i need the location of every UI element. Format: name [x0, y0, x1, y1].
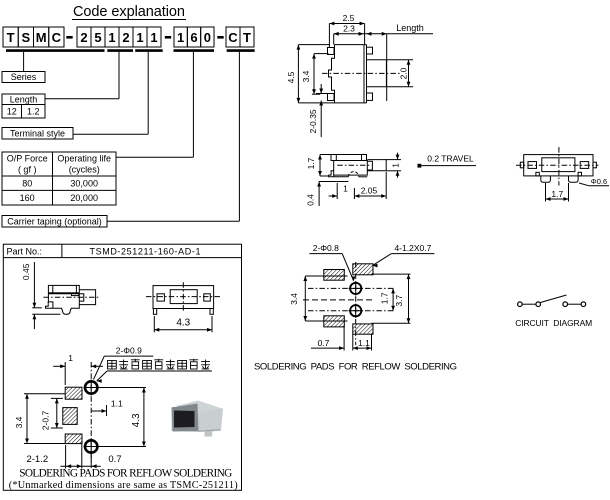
- dashes between code groups: [66, 36, 72, 39]
- tsmd front view: right terminal: [204, 294, 211, 301]
- svg-text:Part No.:: Part No.:: [7, 246, 43, 256]
- connector: carrier taping: [238, 52, 240, 221]
- tsmd front view: button: [170, 290, 197, 304]
- reflow pads: left-bottom pad: [324, 316, 345, 327]
- svg-text:3.4: 3.4: [14, 416, 24, 428]
- label box: Terminal style: [2, 128, 73, 140]
- circuit diagram: lever: [540, 295, 567, 303]
- reflow pads: top-center pad: [353, 264, 373, 275]
- hole crosshairs: [349, 287, 364, 289]
- top view: plunger: [367, 60, 387, 87]
- svg-text:4-1.2X0.7: 4-1.2X0.7: [394, 243, 431, 253]
- svg-text:CIRCUIT DIAGRAM: CIRCUIT DIAGRAM: [515, 318, 592, 328]
- front view: centerlines: [516, 164, 599, 166]
- svg-text:1.7: 1.7: [379, 292, 389, 304]
- svg-text:SOLDERING PADS FOR REFLOW: SOLDERING PADS FOR REFLOW SOLDERING: [254, 362, 457, 373]
- tsmd pads: hole extension lines: [98, 387, 146, 389]
- front view: left terminal: [528, 162, 537, 169]
- group brackets under code: [6, 49, 105, 52]
- top view: tab top-right: [367, 47, 373, 54]
- front view: right terminal: [580, 162, 589, 169]
- tsmd hole crosshairs: [84, 387, 100, 389]
- code character boxes TSMC-251211-160-CT: [3, 27, 18, 47]
- top view: body outline: [329, 45, 367, 103]
- reflow pads: left-top pad: [324, 270, 345, 281]
- svg-text:Terminal style: Terminal style: [10, 128, 65, 138]
- svg-text:0.7: 0.7: [108, 454, 121, 465]
- side view: left step and foot: [329, 171, 349, 177]
- top view: tab bottom-right: [367, 93, 373, 100]
- svg-text:(cycles): (cycles): [69, 165, 100, 175]
- svg-text:1: 1: [136, 30, 143, 45]
- svg-text:1: 1: [391, 163, 401, 168]
- tsmd side view: body: [46, 293, 80, 314]
- front view: terminal stubs: [520, 162, 523, 168]
- top view: terminal top-left: [328, 48, 335, 55]
- tsmd pads: chinese note: [108, 361, 117, 370]
- front view: feet: [541, 176, 551, 182]
- svg-text:4.5: 4.5: [286, 71, 296, 83]
- svg-text:0.4: 0.4: [305, 194, 315, 206]
- tsmd pads: bottom hole: [85, 440, 97, 452]
- svg-text:2.3: 2.3: [343, 24, 355, 34]
- side view: stem: [367, 160, 386, 171]
- svg-text:2.5: 2.5: [343, 13, 355, 23]
- label box: Length: [2, 94, 45, 105]
- svg-text:1.2: 1.2: [27, 107, 40, 117]
- svg-text:0.45: 0.45: [21, 263, 31, 280]
- svg-text:( gf ): ( gf ): [18, 165, 37, 175]
- svg-text:30,000: 30,000: [70, 179, 98, 189]
- extension line at plunger tip: [386, 34, 388, 101]
- tsmd side view: plate bottom thick line: [48, 292, 79, 294]
- circuit diagram: contacts: [518, 302, 523, 307]
- reflow pads: holes: [350, 283, 361, 294]
- svg-text:Operating life: Operating life: [57, 154, 111, 164]
- top view: terminal bottom-left: [328, 94, 335, 101]
- svg-text:3.4: 3.4: [301, 70, 311, 82]
- svg-text:3.7: 3.7: [394, 295, 404, 307]
- tsmd front view: left terminal: [157, 294, 164, 301]
- reflow pads: bottom-center pad: [353, 324, 373, 334]
- svg-text:2.05: 2.05: [361, 185, 378, 195]
- operating force / life table: [2, 152, 116, 205]
- side view: top plate: [331, 155, 367, 161]
- svg-text:C: C: [228, 30, 238, 45]
- svg-text:TSMD-251211-160-AD-1: TSMD-251211-160-AD-1: [90, 246, 201, 256]
- side view: main body: [334, 161, 368, 176]
- svg-text:3.4: 3.4: [289, 293, 299, 305]
- tsmd pads: mid pad: [63, 408, 77, 425]
- svg-text:Length: Length: [396, 23, 424, 33]
- svg-text:2: 2: [122, 30, 129, 45]
- svg-text:1: 1: [108, 30, 115, 45]
- circuit diagram: wires: [522, 303, 536, 305]
- tsmd front view: body: [153, 286, 214, 309]
- svg-text:1: 1: [68, 353, 73, 363]
- front view: body: [524, 155, 593, 176]
- svg-text:6: 6: [190, 30, 197, 45]
- svg-text:C: C: [52, 30, 62, 45]
- svg-text:1: 1: [150, 30, 157, 45]
- side view: centerline: [337, 164, 371, 166]
- reflow pads: centerlines: [355, 262, 357, 345]
- tsmd pads: bottom pad: [65, 434, 82, 444]
- svg-text:4.3: 4.3: [176, 318, 190, 329]
- tsmd side view: top plate: [48, 285, 79, 292]
- label box: Carrier taping (optional): [2, 216, 107, 228]
- svg-text:S: S: [22, 30, 31, 45]
- svg-text:0: 0: [204, 30, 211, 45]
- tsmd pads: top pad: [65, 387, 82, 399]
- svg-text:0.7: 0.7: [318, 338, 330, 348]
- svg-text:1.7: 1.7: [306, 157, 316, 169]
- svg-text:5: 5: [94, 30, 101, 45]
- svg-text:Code explanation: Code explanation: [73, 4, 185, 20]
- tsmd side view: stem: [79, 290, 95, 305]
- svg-text:160: 160: [20, 193, 35, 203]
- svg-text:2-0.35: 2-0.35: [308, 109, 318, 133]
- connector: series: [23, 52, 25, 72]
- length value table 12 / 1.2: [2, 105, 45, 119]
- tsmd front view: centerlines: [146, 296, 220, 298]
- svg-text:2-Φ0.9: 2-Φ0.9: [116, 346, 142, 356]
- svg-text:1.7: 1.7: [551, 189, 563, 199]
- svg-text:2-1.2: 2-1.2: [26, 454, 48, 465]
- svg-text:T: T: [7, 30, 15, 45]
- tsmd front view: feet: [153, 309, 156, 315]
- connector: length: [118, 52, 120, 99]
- top view: right wall double line: [363, 45, 365, 103]
- svg-text:1: 1: [177, 30, 184, 45]
- svg-text:12: 12: [7, 107, 17, 117]
- svg-text:Φ0.6: Φ0.6: [591, 177, 607, 186]
- svg-text:(*Unmarked dimensions are same: (*Unmarked dimensions are same as TSMC-2…: [9, 480, 238, 491]
- top view: horizontal centerline: [322, 72, 400, 74]
- svg-text:Series: Series: [11, 72, 37, 82]
- side view: bottom contact dome (dashed): [348, 172, 358, 177]
- front view: bottom inner squares: [536, 172, 539, 176]
- svg-text:Length: Length: [10, 94, 38, 104]
- svg-text:T: T: [243, 30, 251, 45]
- connector: terminal style: [147, 52, 149, 134]
- connector: operating force: [192, 52, 194, 157]
- tsmd side view: centerline: [43, 296, 100, 298]
- label box: Series: [2, 72, 45, 83]
- svg-text:4.3: 4.3: [131, 413, 142, 427]
- part no box frame: [3, 244, 241, 490]
- svg-text:20,000: 20,000: [70, 193, 98, 203]
- svg-text:0.2 TRAVEL: 0.2 TRAVEL: [427, 154, 474, 164]
- svg-text:1.1: 1.1: [111, 399, 123, 409]
- svg-text:M: M: [36, 30, 47, 45]
- svg-text:O/P Force: O/P Force: [7, 154, 48, 164]
- svg-text:2-0.7: 2-0.7: [40, 411, 50, 431]
- front view: button: [542, 158, 575, 172]
- svg-text:1.1: 1.1: [358, 338, 370, 348]
- svg-text:80: 80: [22, 179, 32, 189]
- tsmd side view: inner small rect: [72, 293, 79, 295]
- svg-text:2.0: 2.0: [399, 67, 409, 79]
- tsmd pads: centerline: [90, 362, 92, 462]
- tsmd pads: top hole: [85, 381, 97, 393]
- svg-text:2-Φ0.8: 2-Φ0.8: [313, 243, 339, 253]
- tsmd photo: [172, 407, 224, 432]
- svg-text:SOLDERING PADS FOR REFLOW SOLD: SOLDERING PADS FOR REFLOW SOLDERING: [19, 468, 232, 480]
- svg-text:2: 2: [80, 30, 87, 45]
- svg-text:Carrier taping (optional): Carrier taping (optional): [7, 216, 102, 226]
- svg-text:1: 1: [343, 184, 348, 194]
